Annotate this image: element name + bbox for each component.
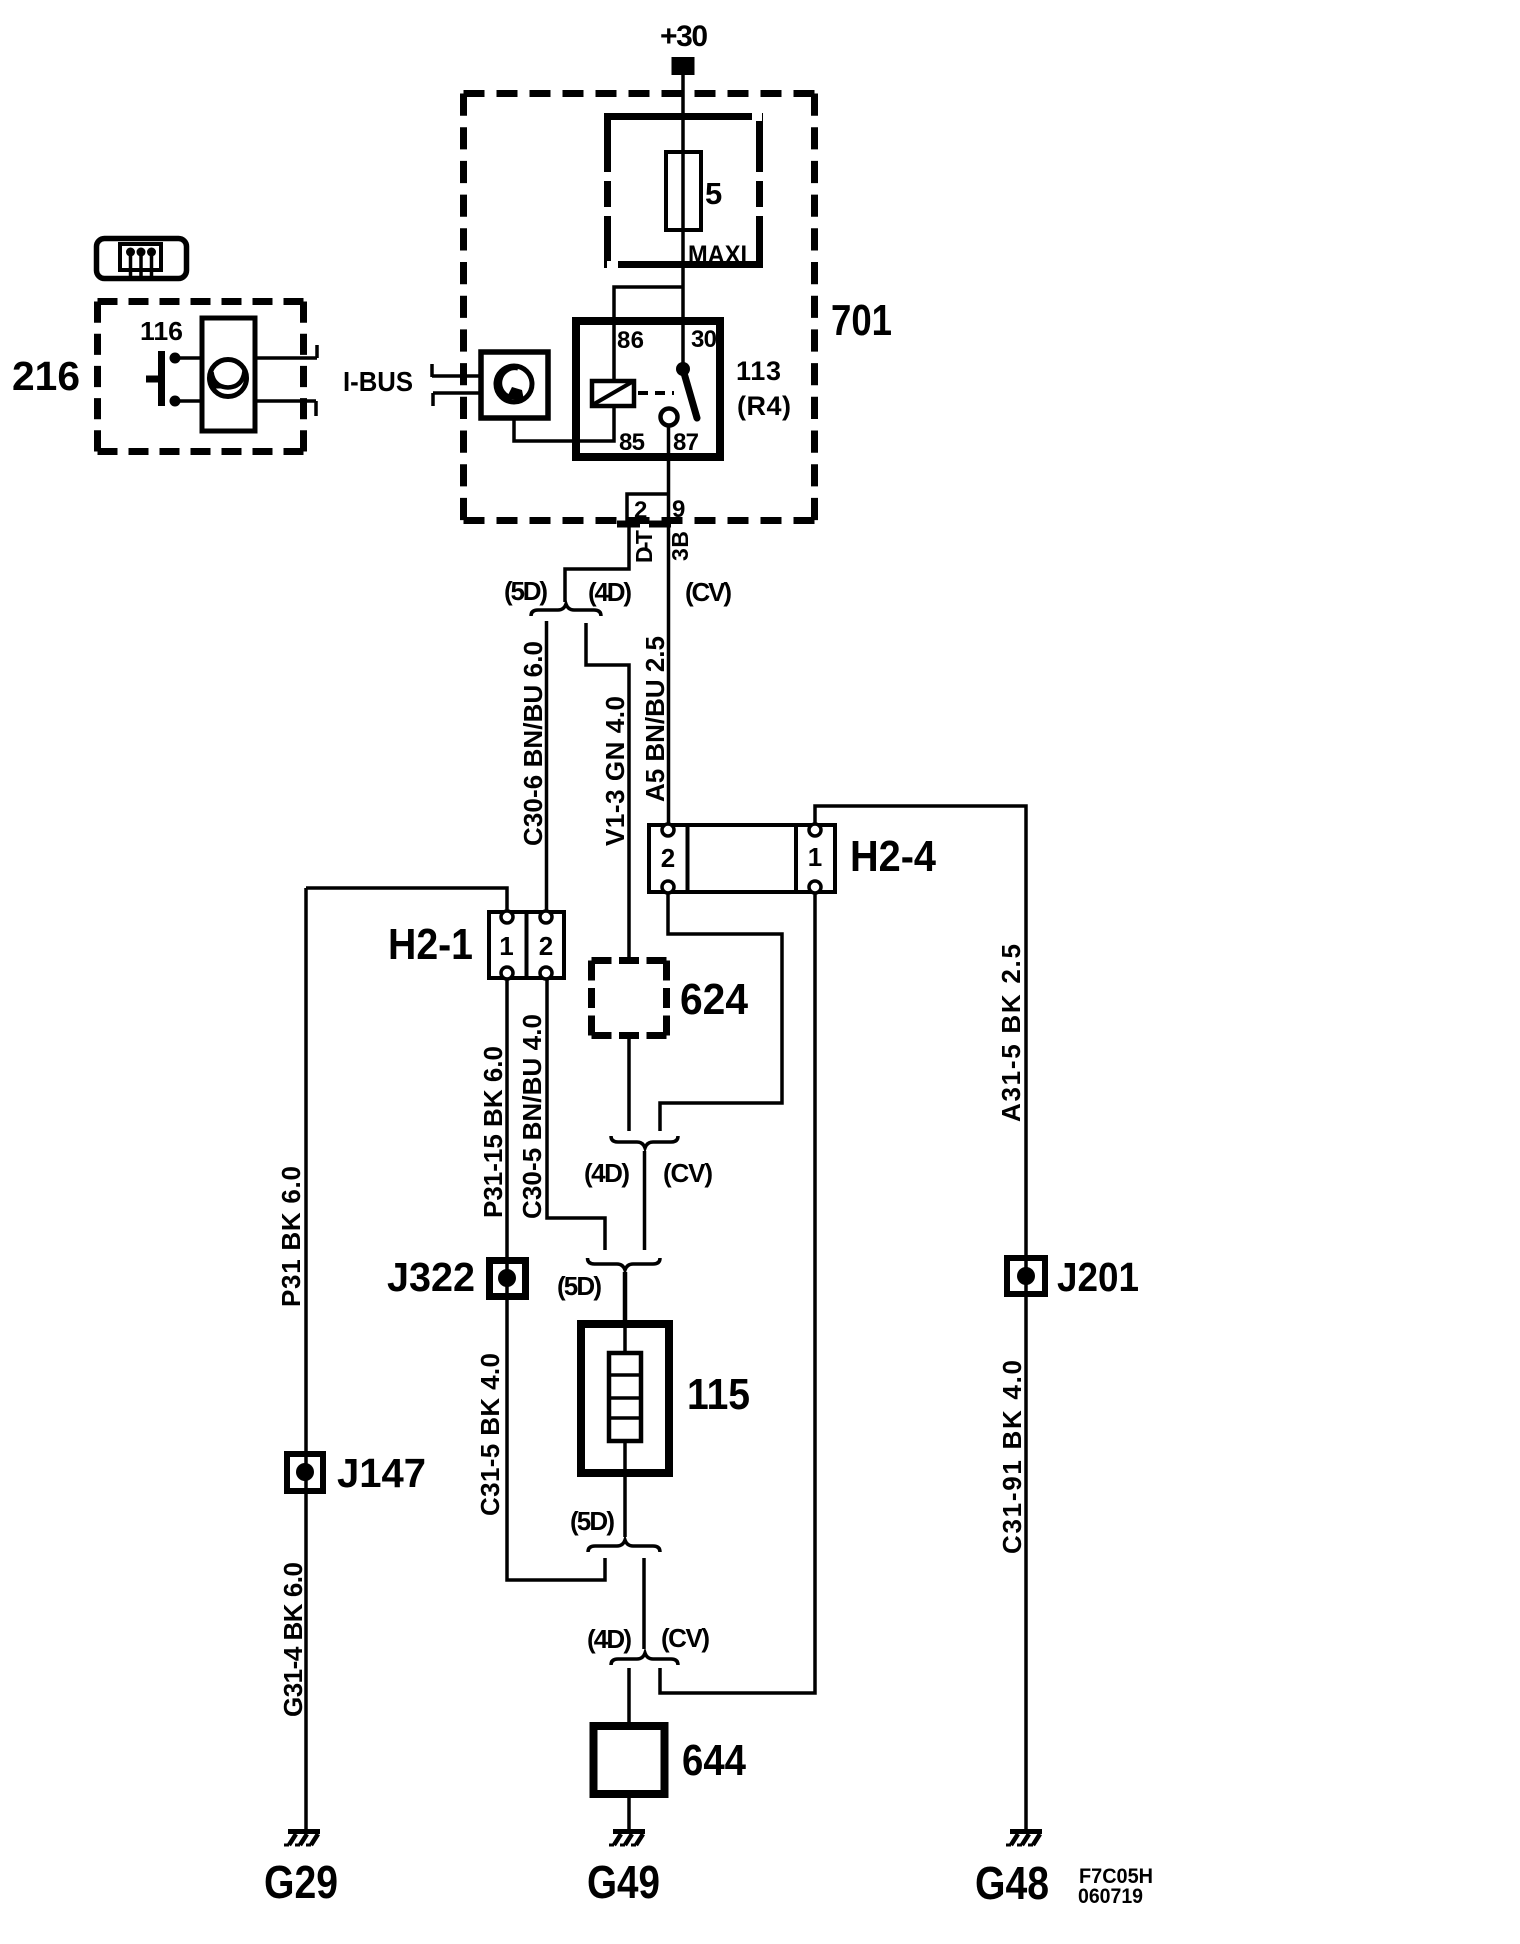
connector H2-1	[489, 911, 564, 979]
svg-text:86: 86	[617, 327, 644, 354]
wire CV branch to H2-4 pin1 long riser	[660, 893, 815, 1693]
wire H2-1 pin1 feed from left run	[306, 888, 507, 911]
fuse holder MAXI box	[608, 117, 760, 265]
svg-text:G31-4 BK 6.0: G31-4 BK 6.0	[278, 1562, 308, 1717]
svg-text:624: 624	[680, 975, 748, 1024]
svg-text:P31-15 BK 6.0: P31-15 BK 6.0	[478, 1046, 508, 1218]
connector H2-4	[649, 824, 835, 893]
svg-text:701: 701	[831, 296, 892, 345]
svg-text:5: 5	[705, 176, 722, 211]
svg-text:9: 9	[672, 496, 685, 523]
svg-text:(R4): (R4)	[737, 391, 791, 421]
wires module to bus ticks	[255, 345, 317, 416]
svg-text:G29: G29	[264, 1856, 338, 1908]
module box inside 216	[202, 318, 255, 431]
svg-text:85: 85	[619, 429, 645, 456]
box 701 dashed enclosure	[464, 94, 815, 521]
wire brace to 644	[627, 1668, 631, 1722]
svg-text:2: 2	[634, 497, 647, 524]
I-BUS module icon	[496, 366, 532, 402]
svg-text:C31-5 BK 4.0: C31-5 BK 4.0	[475, 1353, 505, 1516]
wire 115 down	[623, 1477, 627, 1537]
svg-text:I-BUS: I-BUS	[343, 366, 413, 397]
svg-text:(5D): (5D)	[557, 1271, 602, 1301]
svg-text:J201: J201	[1057, 1254, 1139, 1300]
box 216 dashed enclosure	[98, 302, 304, 452]
svg-text:3B: 3B	[667, 531, 693, 561]
svg-text:(4D): (4D)	[587, 1624, 632, 1654]
connector icon above 216	[97, 239, 187, 279]
switch 116 button	[158, 351, 165, 406]
svg-text:060719: 060719	[1078, 1885, 1143, 1908]
connector pin box 2 below relay	[627, 494, 668, 524]
junction J147	[287, 1454, 323, 1491]
svg-text:J147: J147	[337, 1450, 426, 1496]
svg-text:C31-91 BK 4.0: C31-91 BK 4.0	[997, 1360, 1027, 1554]
fuse 5 element	[666, 152, 701, 230]
relay contact arm	[684, 373, 697, 418]
svg-text:(5D): (5D)	[570, 1506, 615, 1536]
svg-text:(CV): (CV)	[661, 1623, 710, 1653]
svg-text:87: 87	[673, 429, 699, 456]
svg-text:115: 115	[687, 1370, 750, 1419]
dash segment closing pin box bottom	[617, 521, 640, 528]
svg-text:A5 BN/BU 2.5: A5 BN/BU 2.5	[640, 636, 670, 802]
svg-text:J322: J322	[387, 1254, 475, 1300]
svg-text:(CV): (CV)	[663, 1158, 713, 1188]
svg-text:D-T: D-T	[631, 530, 657, 563]
svg-text:+30: +30	[660, 20, 708, 53]
wire H2-1 pin 1 down to J322	[507, 979, 605, 1580]
svg-text:(5D): (5D)	[504, 576, 548, 606]
svg-text:116: 116	[140, 316, 183, 346]
wire through 115	[623, 1324, 627, 1477]
component 644 box	[594, 1726, 665, 1794]
variant split brace above 644	[611, 1653, 678, 1665]
component 115 box	[581, 1324, 669, 1473]
I-BUS twisted pair stubs	[432, 364, 481, 406]
ground G48 symbol	[1006, 1832, 1042, 1846]
svg-text:H2-1: H2-1	[388, 920, 473, 969]
svg-text:113: 113	[736, 356, 781, 386]
svg-text:V1-3 GN 4.0: V1-3 GN 4.0	[600, 696, 630, 846]
svg-text:C30-5 BN/BU 4.0: C30-5 BN/BU 4.0	[517, 1014, 547, 1219]
svg-text:(4D): (4D)	[584, 1158, 630, 1188]
wire pin 9 / B3 down to H2-4 pin 2	[667, 425, 671, 824]
node +30 terminal square	[672, 57, 695, 75]
relay coil	[592, 381, 634, 406]
svg-text:G48: G48	[975, 1857, 1049, 1909]
wire split to next	[642, 1558, 646, 1649]
wire H2-4 pin1 up to right column	[815, 806, 1026, 1831]
wire V1-3 to 624	[586, 623, 629, 957]
wire from pin 2 to variant split	[565, 524, 629, 602]
MAXI box border gaps	[601, 110, 767, 272]
variant split brace top	[531, 604, 601, 616]
relay actuator dashed link	[638, 391, 674, 395]
wire 624 down to merge	[627, 1037, 631, 1131]
module icon in 216	[210, 360, 247, 397]
wire 644 down to G49	[627, 1798, 631, 1831]
variant split brace below 115	[588, 1540, 660, 1552]
svg-text:216: 216	[12, 353, 80, 399]
relay 113 (R4) box	[576, 321, 720, 457]
relay contact pivot dot	[676, 362, 690, 376]
wire P31 left column down	[304, 888, 308, 1831]
svg-text:(CV): (CV)	[685, 577, 732, 607]
wire merge to 115	[623, 1272, 628, 1322]
svg-text:(4D): (4D)	[588, 577, 632, 607]
box 624 dashed	[592, 961, 667, 1036]
svg-text:1: 1	[808, 842, 822, 872]
svg-text:G49: G49	[587, 1856, 660, 1908]
svg-text:2: 2	[539, 931, 553, 961]
svg-text:2: 2	[661, 843, 675, 873]
svg-text:H2-4: H2-4	[850, 832, 936, 881]
wire main feed from +30 down through fuse 5 to relay pin 30	[681, 75, 685, 373]
I-BUS interface module box	[481, 352, 548, 418]
relay contact 87 circle	[661, 409, 678, 426]
svg-text:30: 30	[691, 326, 717, 353]
junction J201	[1007, 1258, 1045, 1294]
wire relay coil to pin 85 and I-BUS module	[514, 406, 614, 441]
svg-text:644: 644	[682, 1736, 746, 1785]
svg-text:MAXI: MAXI	[688, 241, 747, 269]
ground G49 symbol	[609, 1832, 645, 1846]
svg-text:1: 1	[499, 931, 513, 961]
wire C30-6 to H2-1 pin 2	[545, 621, 549, 911]
junction J322	[490, 1261, 526, 1297]
wires switch to module	[175, 358, 202, 401]
svg-text:C30-6 BN/BU 6.0: C30-6 BN/BU 6.0	[518, 641, 548, 846]
wire H2-4 pin2 down jog to merge	[660, 893, 782, 1131]
wire branch to relay pin 86	[614, 287, 683, 381]
ground G29 symbol	[284, 1832, 320, 1846]
wire H2-1 pin 2 down jog to merge	[547, 979, 605, 1250]
fuse element in 115	[609, 1353, 641, 1441]
svg-text:A31-5 BK 2.5: A31-5 BK 2.5	[996, 944, 1026, 1122]
svg-text:P31 BK 6.0: P31 BK 6.0	[276, 1166, 306, 1307]
